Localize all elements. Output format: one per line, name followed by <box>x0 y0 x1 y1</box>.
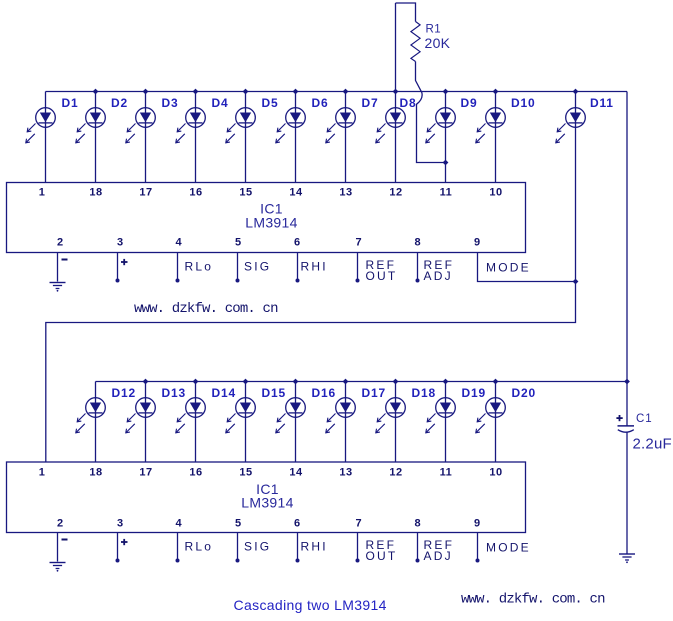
wire: LED column x=95 row1 (bus to IC1 pin) <box>95 92 97 183</box>
terminal dot pin 8 lower <box>416 559 420 563</box>
wire: LED column x=295 row1 (bus to IC1 pin) <box>295 92 297 183</box>
wire: pin 8 stub (lower) <box>417 533 419 560</box>
wire: pin 7 stub (lower) <box>357 533 359 560</box>
LED D3 <box>126 108 156 143</box>
svg-text:R1: R1 <box>426 24 442 36</box>
svg-text:14: 14 <box>289 187 303 199</box>
svg-text:9: 9 <box>474 237 480 249</box>
svg-text:RHI: RHI <box>301 260 328 274</box>
wire: LED column x=395 row2 (bus to IC1 pin) <box>395 382 397 463</box>
label minus (pin 2 lower) <box>62 539 68 541</box>
svg-text:11: 11 <box>440 187 453 199</box>
junction bus1 x=495 <box>493 89 499 95</box>
LED D20 <box>476 398 506 433</box>
svg-text:17: 17 <box>139 187 152 199</box>
terminal dot pin 4 upper <box>176 279 180 283</box>
wire: pin 5 stub (lower) <box>237 533 239 560</box>
junction bus1 x=575 <box>573 89 579 95</box>
svg-text:20K: 20K <box>425 35 451 51</box>
label minus (pin 2 upper) <box>62 259 68 261</box>
wire: LED column x=95 row2 (bus to IC1 pin) <box>95 382 97 463</box>
op IC U2 box (IC1 LM3914 lower) <box>7 462 526 533</box>
svg-text:6: 6 <box>294 237 300 249</box>
terminal dot pin 6 lower <box>296 559 300 563</box>
svg-text:www. dzkfw. com. cn: www. dzkfw. com. cn <box>134 301 278 317</box>
wire: pin 9 MODE to D11 column (upper) <box>478 253 576 282</box>
junction bus2 x=295 <box>293 379 299 385</box>
svg-text:16: 16 <box>189 466 202 478</box>
LED D8 <box>376 108 406 143</box>
svg-text:D17: D17 <box>362 386 386 400</box>
svg-text:9: 9 <box>474 518 480 530</box>
terminal dot pin 3 lower <box>116 559 120 563</box>
terminal dot pin 5 upper <box>236 279 240 283</box>
svg-text:12: 12 <box>389 187 402 199</box>
LED D11 <box>556 108 586 143</box>
svg-text:LM3914: LM3914 <box>245 215 297 231</box>
wire: pin 8 stub (upper) <box>417 253 419 280</box>
svg-text:17: 17 <box>139 466 152 478</box>
svg-text:RLo: RLo <box>185 540 214 554</box>
op IC U1 box (IC1 LM3914 upper) <box>7 183 526 253</box>
svg-text:10: 10 <box>489 187 502 199</box>
svg-text:ADJ: ADJ <box>424 549 453 563</box>
junction bus1 x=245 <box>243 89 249 95</box>
junction bus1 x=395 <box>393 89 399 95</box>
junction bus1 x=195 <box>193 89 199 95</box>
svg-text:15: 15 <box>239 187 252 199</box>
terminal dot pin 8 upper <box>416 279 420 283</box>
junction bus2 x=145 <box>143 379 149 385</box>
svg-text:C1: C1 <box>636 413 653 425</box>
svg-text:SIG: SIG <box>244 260 271 274</box>
junction bus2 x=195 <box>193 379 199 385</box>
wire: LED column x=45 row1 (bus to IC1 pin) <box>45 92 47 183</box>
svg-text:11: 11 <box>440 466 453 478</box>
wire: LED column x=445 row2 (bus to IC1 pin) <box>445 382 447 463</box>
svg-text:SIG: SIG <box>244 540 271 554</box>
svg-text:5: 5 <box>235 518 241 530</box>
svg-text:4: 4 <box>175 518 182 530</box>
svg-text:D9: D9 <box>461 96 478 110</box>
junction bus2 x=445 <box>443 379 449 385</box>
svg-text:RHI: RHI <box>301 540 328 554</box>
wire: top anode bus row 2 <box>96 381 628 383</box>
svg-text:D5: D5 <box>262 96 279 110</box>
svg-text:Cascading two LM3914: Cascading two LM3914 <box>234 597 387 613</box>
terminal dot pin 7 lower <box>356 559 360 563</box>
LED D18 <box>376 398 406 433</box>
label plus (C1) <box>616 415 622 421</box>
label REF OUT (pin 7 lower) <box>366 538 398 563</box>
svg-text:D3: D3 <box>162 96 179 110</box>
svg-text:MODE: MODE <box>486 261 531 275</box>
wire: LED column x=395 row1 (bus to IC1 pin) <box>395 92 397 183</box>
wire: right vertical bus (top) <box>626 92 628 426</box>
LED D12 <box>76 398 105 433</box>
junction bus2 x=245 <box>243 379 249 385</box>
ground C1 <box>619 554 635 563</box>
svg-text:D1: D1 <box>62 96 79 110</box>
wire: LED column x=495 row1 (bus to IC1 pin) <box>495 92 497 183</box>
junction R1 bottom on D9 column <box>443 160 449 166</box>
wire: R1 left drop to bus <box>395 3 397 92</box>
wire: pin 3 stub (upper) <box>117 253 119 280</box>
junction bus1 x=95 <box>93 89 99 95</box>
wire: pin 6 stub (lower) <box>297 533 299 560</box>
svg-text:15: 15 <box>239 466 252 478</box>
wire: LED column x=345 row1 (bus to IC1 pin) <box>345 92 347 183</box>
svg-text:1: 1 <box>39 466 46 478</box>
svg-text:D20: D20 <box>512 386 536 400</box>
svg-text:MODE: MODE <box>486 541 531 555</box>
wire: LED column x=295 row2 (bus to IC1 pin) <box>295 382 297 463</box>
svg-text:www. dzkfw. com. cn: www. dzkfw. com. cn <box>461 592 605 608</box>
svg-text:2: 2 <box>57 518 63 530</box>
junction bus2 x=495 <box>493 379 499 385</box>
wire: LED column x=245 row1 (bus to IC1 pin) <box>245 92 247 183</box>
wire: LED column x=245 row2 (bus to IC1 pin) <box>245 382 247 463</box>
junction bus2 x=345 <box>343 379 349 385</box>
wire: pin 7 stub (upper) <box>357 253 359 280</box>
svg-text:3: 3 <box>117 237 123 249</box>
wire: R1 bottom, crosses bus, joins D9 column <box>416 62 446 163</box>
svg-text:D12: D12 <box>112 386 136 400</box>
svg-text:D16: D16 <box>312 386 336 400</box>
label plus (pin 3 lower) <box>121 539 128 545</box>
LED D13 <box>126 398 156 433</box>
label plus (pin 3 upper) <box>121 259 128 265</box>
wire: LED column x=345 row2 (bus to IC1 pin) <box>345 382 347 463</box>
LED D5 <box>226 108 256 143</box>
svg-text:18: 18 <box>89 466 102 478</box>
wire: cascade from upper MODE node to lower IC pin 1 <box>46 282 576 463</box>
junction bus2 to right bus <box>624 379 630 385</box>
junction bus1 x=445 <box>443 89 449 95</box>
wire: pin 9 MODE stub (lower) <box>477 533 479 560</box>
LED D4 <box>176 108 206 143</box>
svg-text:14: 14 <box>289 466 303 478</box>
svg-text:OUT: OUT <box>366 269 398 283</box>
svg-text:D14: D14 <box>212 386 236 400</box>
svg-text:1: 1 <box>39 187 46 199</box>
svg-text:ADJ: ADJ <box>424 269 453 283</box>
svg-text:RLo: RLo <box>185 260 214 274</box>
capacitor C1 <box>618 426 635 432</box>
ground pin 2 upper IC <box>50 283 66 292</box>
terminal dot pin 6 upper <box>296 279 300 283</box>
wire: LED column x=445 row1 (bus to IC1 pin) <box>445 92 447 183</box>
junction bus1 x=345 <box>343 89 349 95</box>
svg-text:13: 13 <box>339 466 352 478</box>
LED D15 <box>226 398 256 433</box>
svg-text:OUT: OUT <box>366 549 398 563</box>
svg-text:6: 6 <box>294 518 300 530</box>
svg-text:12: 12 <box>389 466 402 478</box>
svg-text:13: 13 <box>339 187 352 199</box>
svg-text:10: 10 <box>489 466 502 478</box>
label REF ADJ (pin 8 upper) <box>424 258 455 283</box>
svg-text:D8: D8 <box>400 96 417 110</box>
wire: top anode bus row 1 <box>46 91 628 93</box>
svg-text:7: 7 <box>355 237 361 249</box>
svg-text:2.2uF: 2.2uF <box>633 436 672 453</box>
LED D16 <box>276 398 306 433</box>
svg-text:8: 8 <box>414 518 420 530</box>
wire: LED column x=145 row1 (bus to IC1 pin) <box>145 92 147 183</box>
LED D14 <box>176 398 206 433</box>
wire: pin 4 stub (lower) <box>177 533 179 560</box>
svg-text:4: 4 <box>175 237 182 249</box>
terminal dot pin 7 upper <box>356 279 360 283</box>
svg-text:2: 2 <box>57 237 63 249</box>
svg-text:D2: D2 <box>111 96 128 110</box>
svg-text:5: 5 <box>235 237 241 249</box>
svg-text:LM3914: LM3914 <box>241 495 293 511</box>
svg-text:18: 18 <box>89 187 102 199</box>
LED D19 <box>426 398 456 433</box>
wire: pin 3 stub (lower) <box>117 533 119 560</box>
svg-text:8: 8 <box>414 237 420 249</box>
wire: LED column x=195 row1 (bus to IC1 pin) <box>195 92 197 183</box>
LED D9 <box>426 108 456 143</box>
wire: LED column x=145 row2 (bus to IC1 pin) <box>145 382 147 463</box>
wire: LED column x=195 row2 (bus to IC1 pin) <box>195 382 197 463</box>
wire: pin 2 stub (upper) <box>57 253 59 282</box>
svg-text:3: 3 <box>117 518 123 530</box>
LED D17 <box>326 398 356 433</box>
wire: pin 4 stub (upper) <box>177 253 179 280</box>
junction MODE / D11 / cascade node <box>573 279 579 285</box>
svg-text:D19: D19 <box>462 386 486 400</box>
svg-text:D7: D7 <box>362 96 379 110</box>
svg-text:16: 16 <box>189 187 202 199</box>
LED D10 <box>476 108 506 143</box>
junction bus1 x=145 <box>143 89 149 95</box>
junction bus1 x=295 <box>293 89 299 95</box>
terminal dot pin 9 lower <box>476 559 480 563</box>
wire: R1 top loop <box>396 3 416 22</box>
svg-text:D15: D15 <box>262 386 286 400</box>
junction bus2 x=395 <box>393 379 399 385</box>
LED D2 <box>76 108 105 143</box>
svg-text:D6: D6 <box>312 96 329 110</box>
wire: pin 5 stub (upper) <box>237 253 239 280</box>
svg-text:D11: D11 <box>590 96 614 110</box>
label REF ADJ (pin 8 lower) <box>424 538 455 563</box>
LED D6 <box>276 108 306 143</box>
terminal dot pin 5 lower <box>236 559 240 563</box>
svg-text:D10: D10 <box>511 96 535 110</box>
wire: pin 6 stub (upper) <box>297 253 299 280</box>
svg-text:7: 7 <box>355 518 361 530</box>
svg-text:D4: D4 <box>212 96 229 110</box>
svg-text:D13: D13 <box>162 386 186 400</box>
svg-text:D18: D18 <box>412 386 436 400</box>
resistor R1 <box>411 22 420 62</box>
ground pin 2 lower IC <box>50 563 66 572</box>
LED D7 <box>326 108 356 143</box>
LED D1 <box>26 108 56 143</box>
wire: LED column x=495 row2 (bus to IC1 pin) <box>495 382 497 463</box>
wire: C1 bottom to ground <box>626 432 628 553</box>
label REF OUT (pin 7 upper) <box>366 258 398 283</box>
terminal dot pin 3 upper <box>116 279 120 283</box>
terminal dot pin 4 lower <box>176 559 180 563</box>
wire: pin 2 stub (lower) <box>57 533 59 562</box>
wire: LED D11 column (bus to MODE node) <box>575 92 577 282</box>
